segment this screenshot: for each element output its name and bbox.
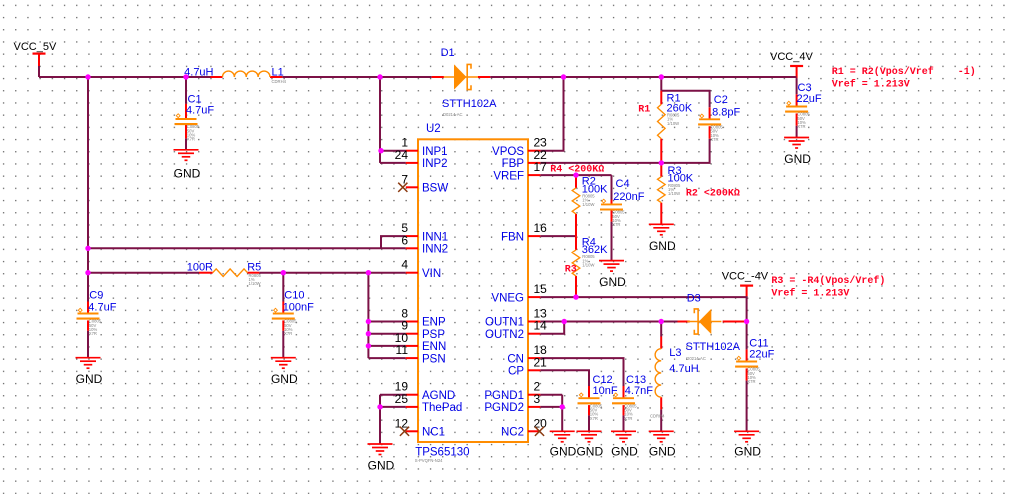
svg-text:X7R: X7R (710, 137, 718, 142)
junction at 88,248.3 (85, 246, 90, 251)
wire PGND vertical to ground (561, 395, 563, 432)
U2 pin 3 PGND2 stub (528, 406, 540, 408)
U2 pin 25 ThePad stub (406, 406, 418, 408)
wire switch node row to L3 and D3 (564, 321, 677, 323)
wire top rail left (39, 76, 211, 78)
svg-text:INN1: INN1 (422, 231, 448, 243)
wire C11 bottom to ground (746, 381, 748, 432)
svg-text:4.7nF: 4.7nF (625, 385, 653, 397)
wire VCC_5V stem (38, 66, 40, 77)
no-connect X on pin 7 BSW (398, 183, 407, 192)
wire top rail middle (282, 76, 431, 78)
wire C12 bottom (588, 415, 590, 431)
capacitor C11 (746, 349, 748, 361)
wire VPOS to rail (540, 77, 563, 151)
svg-text:R1: R1 (638, 105, 650, 116)
svg-text:1/10W: 1/10W (668, 191, 680, 196)
junction at 368.4,333.7 (366, 331, 371, 336)
svg-text:BSW: BSW (422, 183, 448, 195)
ground below C10 (271, 357, 296, 359)
junction at 283.3,272.7 (281, 270, 286, 275)
svg-text:X7R: X7R (187, 137, 195, 142)
U2 pin 5 INN1 stub (406, 235, 418, 237)
svg-text:1/10W: 1/10W (667, 121, 679, 126)
svg-text:FBP: FBP (502, 158, 525, 170)
junction at 368.4,321.5 (366, 319, 371, 324)
junction at 368.4,272.7 (366, 270, 371, 275)
junction at 380,406.9 (377, 404, 382, 409)
svg-text:AGND: AGND (422, 390, 455, 402)
svg-text:C9: C9 (89, 290, 103, 302)
resistor R4 (575, 236, 577, 250)
wire C10 top (282, 273, 284, 302)
svg-text:VPOS: VPOS (492, 146, 524, 158)
svg-text:R5: R5 (247, 261, 261, 273)
U2 pin 8 ENP stub (406, 321, 418, 323)
junction at 381,150.7 (378, 148, 383, 153)
wire INN2 row (88, 247, 406, 249)
ground below PGND pins (550, 430, 575, 432)
svg-text:CN: CN (507, 353, 524, 365)
wire FBP row (540, 162, 661, 164)
svg-text:R2 <200KΩ: R2 <200KΩ (686, 188, 740, 199)
junction at 88,77 (85, 74, 90, 79)
svg-text:15: 15 (534, 282, 548, 296)
wire PSP stub link (368, 333, 405, 335)
svg-text:C10: C10 (284, 290, 304, 302)
wire C11 top (746, 322, 748, 350)
svg-text:GND: GND (611, 445, 638, 459)
svg-text:STTH102A: STTH102A (686, 341, 741, 353)
svg-text:INP2: INP2 (422, 158, 448, 170)
svg-text:X7R: X7R (624, 416, 632, 421)
capacitor C9 (87, 302, 89, 314)
svg-text:17: 17 (534, 160, 548, 174)
ground below C13 (611, 430, 636, 432)
svg-text:U2: U2 (426, 123, 441, 135)
junction at 380,77 (377, 74, 382, 79)
wire C3 column (796, 78, 798, 94)
resistor R3 (660, 163, 662, 177)
op-amp U2 TPS65130 body (418, 139, 528, 442)
wire OUTN1 link (540, 321, 564, 323)
capacitor C3 (796, 94, 798, 106)
svg-text:D0214-AC: D0214-AC (443, 112, 463, 117)
junction at 88,272.7 (85, 270, 90, 275)
ground below C9 (76, 357, 101, 359)
wire C13 bottom (623, 415, 625, 431)
wire VIN row left of R5 (88, 272, 199, 274)
U2 pin 11 PSN stub (406, 357, 418, 359)
svg-text:100nF: 100nF (283, 302, 314, 314)
wire INP2 link (380, 162, 406, 164)
wire VREF row (540, 174, 611, 176)
wire C3 bottom (796, 126, 798, 138)
svg-text:VCC_-4V: VCC_-4V (722, 271, 769, 283)
svg-text:X7R: X7R (284, 331, 292, 336)
svg-text:GND: GND (550, 445, 577, 459)
wire top rail right (490, 76, 796, 78)
junction at 368.4,345.9 (366, 343, 371, 348)
svg-text:VIN: VIN (422, 268, 441, 280)
wire PGND2 link (540, 406, 562, 408)
svg-text:C2: C2 (714, 94, 728, 106)
U2 pin 24 INP2 stub (406, 162, 418, 164)
resistor R5 (199, 272, 213, 274)
svg-text:22uF: 22uF (797, 93, 822, 105)
wire ThePad link (380, 406, 406, 408)
junction at 186,77 (183, 74, 188, 79)
resistor R1 (660, 91, 662, 105)
junction at 661.3,162.9 (659, 160, 664, 165)
no-connect X on pin 12 NC1 (400, 427, 409, 436)
junction at 661.2,321.5 (659, 319, 664, 324)
U2 pin 22 FBP stub (528, 162, 540, 164)
wire INN1 jog (381, 236, 406, 248)
wire AGND vertical to ground (379, 395, 381, 444)
ground below L3 (649, 430, 674, 432)
wire AGND link (380, 394, 406, 396)
svg-text:NC2: NC2 (501, 427, 524, 439)
svg-text:GND: GND (734, 445, 761, 459)
U2 pin 1 INP1 stub (406, 150, 418, 152)
wire C9 bottom (87, 331, 89, 358)
svg-text:X7R: X7R (590, 416, 598, 421)
junction at 562.2,406.9 (560, 404, 565, 409)
svg-text:D1: D1 (441, 47, 455, 59)
wire ENN stub link (368, 345, 405, 347)
ground below AGND ThePad (368, 443, 393, 445)
svg-text:Vref = 1.213V: Vref = 1.213V (832, 78, 910, 90)
svg-text:CDRH4: CDRH4 (272, 79, 287, 84)
svg-text:INN2: INN2 (422, 244, 448, 256)
svg-text:D3: D3 (687, 293, 701, 305)
svg-text:R3: R3 (565, 264, 577, 275)
svg-text:ENN: ENN (422, 341, 446, 353)
svg-text:VCC_5V: VCC_5V (14, 41, 57, 53)
svg-text:CDRH4: CDRH4 (650, 413, 665, 418)
U2 pin 23 VPOS stub (528, 150, 540, 152)
svg-text:GND: GND (649, 445, 676, 459)
svg-text:22uF: 22uF (749, 348, 774, 360)
ground below R3 (649, 223, 674, 225)
svg-text:14: 14 (534, 319, 548, 333)
inductor L3 (660, 337, 662, 349)
diode D1 STTH102A (432, 76, 444, 78)
U2 pin 18 CN stub (528, 357, 540, 359)
inductor L1 (211, 76, 223, 78)
U2 pin 17 VREF stub (528, 174, 540, 176)
svg-text:25: 25 (395, 392, 409, 406)
capacitor C13 (623, 386, 625, 398)
svg-text:VCC_4V: VCC_4V (770, 51, 813, 63)
svg-text:3: 3 (534, 392, 541, 406)
wire C4 bottom to ground (611, 222, 613, 261)
capacitor C2 (709, 107, 711, 119)
wire C2 loop top (661, 91, 709, 108)
svg-text:CP: CP (508, 366, 524, 378)
svg-text:GND: GND (76, 372, 103, 386)
svg-text:4.7uH: 4.7uH (669, 363, 698, 375)
svg-text:R3 = -R4(Vpos/Vref): R3 = -R4(Vpos/Vref) (771, 275, 885, 287)
wire enable vertical (367, 273, 369, 358)
svg-text:1/10W: 1/10W (582, 263, 594, 268)
svg-text:16: 16 (534, 221, 548, 235)
svg-text:VNEG: VNEG (491, 292, 524, 304)
svg-text:8.8pF: 8.8pF (712, 107, 740, 119)
wire C1 top (185, 77, 187, 104)
wire INP vertical (379, 77, 381, 163)
svg-text:S-PVQFN-N24: S-PVQFN-N24 (415, 458, 443, 463)
ground below C1 (174, 149, 199, 151)
svg-text:GND: GND (271, 372, 298, 386)
svg-text:1/10W: 1/10W (249, 281, 261, 286)
svg-text:ENP: ENP (422, 317, 446, 329)
wire CN row to C13 (540, 358, 623, 386)
svg-text:7: 7 (401, 172, 408, 186)
ground below C12 (577, 430, 602, 432)
resistor R2 (575, 175, 577, 188)
svg-text:TPS65130: TPS65130 (415, 447, 469, 459)
svg-text:GND: GND (576, 445, 603, 459)
junction at 661.3,77 (659, 74, 664, 79)
U2 pin 13 OUTN1 stub (528, 321, 540, 323)
U2 pin 4 VIN stub (406, 272, 418, 274)
U2 pin 7 BSW stub (406, 186, 418, 188)
svg-text:GND: GND (649, 239, 676, 253)
U2 pin 12 NC1 stub (406, 430, 418, 432)
svg-text:PGND1: PGND1 (484, 390, 524, 402)
wire VIN row right of R5 (259, 272, 406, 274)
svg-text:Vref = 1.213V: Vref = 1.213V (771, 288, 849, 300)
svg-text:4.7uF: 4.7uF (186, 104, 214, 116)
svg-text:L1: L1 (272, 67, 284, 79)
junction at 564.2,321.5 (562, 319, 567, 324)
svg-text:X7R: X7R (747, 379, 755, 384)
svg-text:220nF: 220nF (613, 191, 644, 203)
wire C1 bottom (185, 138, 187, 150)
U2 pin 16 FBN stub (528, 235, 540, 237)
capacitor C12 (588, 386, 590, 398)
ground below C4 (599, 260, 624, 262)
wire C10 bottom (282, 331, 284, 358)
svg-text:FBN: FBN (501, 231, 524, 243)
svg-text:PSN: PSN (422, 353, 446, 365)
wire PSN stub link (368, 357, 405, 359)
capacitor C4 (611, 200, 613, 205)
U2 pin 15 VNEG stub (528, 296, 540, 298)
U2 pin 2 PGND1 stub (528, 394, 540, 396)
svg-text:X7R: X7R (797, 124, 805, 129)
svg-text:24: 24 (395, 148, 409, 162)
wire ENP stub link (368, 321, 405, 323)
U2 pin 19 AGND stub (406, 394, 418, 396)
capacitor C10 (282, 302, 284, 314)
svg-text:OUTN2: OUTN2 (485, 329, 524, 341)
wire R1 top from rail (660, 77, 662, 91)
svg-text:1/10W: 1/10W (582, 202, 594, 207)
svg-text:R1 = R2(Vpos/Vref -1): R1 = R2(Vpos/Vref -1) (832, 66, 976, 78)
svg-text:NC1: NC1 (422, 427, 445, 439)
junction at 563.5,77 (561, 74, 566, 79)
svg-text:L3: L3 (669, 347, 681, 359)
no-connect X on pin 20 NC2 (535, 427, 544, 436)
U2 pin 10 ENN stub (406, 345, 418, 347)
wire left vertical bus (87, 77, 89, 302)
svg-text:C4: C4 (616, 178, 630, 190)
wire L3 bottom to ground (660, 409, 662, 431)
wire PGND1 link (540, 394, 562, 396)
svg-text:PGND2: PGND2 (484, 402, 524, 414)
svg-text:INP1: INP1 (422, 146, 448, 158)
diode D3 STTH102A (678, 321, 690, 323)
svg-text:GND: GND (599, 275, 626, 289)
U2 pin 9 PSP stub (406, 333, 418, 335)
wire VNEG row (540, 297, 746, 321)
svg-text:6: 6 (401, 233, 408, 247)
wire C4 top drop (611, 175, 613, 199)
svg-text:X7R: X7R (612, 222, 620, 227)
svg-text:4.7uF: 4.7uF (88, 302, 116, 314)
svg-text:GND: GND (784, 152, 811, 166)
U2 pin 14 OUTN2 stub (528, 333, 540, 335)
U2 pin 20 NC2 stub (528, 430, 540, 432)
svg-text:100R: 100R (187, 261, 213, 273)
svg-text:4: 4 (401, 258, 408, 272)
svg-text:GND: GND (368, 459, 395, 473)
wire FBN row (540, 235, 576, 237)
svg-text:GND: GND (174, 166, 201, 180)
svg-text:21: 21 (534, 355, 548, 369)
svg-text:STTH102A: STTH102A (442, 98, 497, 110)
wire C2 loop bottom (661, 139, 709, 163)
svg-text:PSP: PSP (422, 329, 445, 341)
svg-text:OUTN1: OUTN1 (485, 317, 524, 329)
junction at 576,175.1 (573, 172, 578, 177)
ground below C3 (784, 137, 809, 139)
wire CP row to C12 (540, 370, 589, 386)
wire L3 top (660, 322, 662, 337)
svg-text:ThePad: ThePad (422, 402, 462, 414)
wire INP1 link (380, 150, 406, 152)
junction at 746.6,321.5 (744, 319, 749, 324)
svg-text:X7R: X7R (89, 331, 97, 336)
ground below C11 (734, 430, 759, 432)
junction at 576,297.1 (573, 294, 578, 299)
U2 pin 6 INN2 stub (406, 247, 418, 249)
svg-text:VREF: VREF (493, 170, 524, 182)
capacitor C1 (185, 104, 187, 119)
U2 pin 21 CP stub (528, 369, 540, 371)
svg-text:11: 11 (396, 343, 409, 357)
wire OUTN2 jog (540, 322, 564, 334)
svg-text:D0214-AC: D0214-AC (686, 356, 706, 361)
